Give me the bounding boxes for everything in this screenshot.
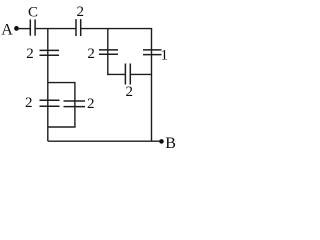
svg-text:C: C xyxy=(28,5,38,21)
capacitor C6 value 2 xyxy=(125,64,130,85)
wire bottom to node B xyxy=(48,140,162,142)
wire parallel loop bottom xyxy=(48,126,76,128)
svg-text:2: 2 xyxy=(87,46,95,62)
wire middle horizontal to C6 xyxy=(107,73,125,75)
svg-text:1: 1 xyxy=(161,48,169,64)
wire A to C1 xyxy=(17,28,31,30)
capacitor C7 value 2 xyxy=(40,100,60,106)
svg-text:2: 2 xyxy=(77,4,85,20)
svg-text:2: 2 xyxy=(25,95,33,111)
capacitor C5 value 1 xyxy=(143,50,162,55)
wire left vertical branch xyxy=(47,29,49,142)
capacitor C1 value C xyxy=(30,19,35,35)
capacitor C3 value 2 xyxy=(40,50,60,55)
node B terminal dot xyxy=(159,139,164,144)
wire C1 to C2 through node junction xyxy=(35,28,76,30)
wire right vertical branch xyxy=(151,29,153,142)
capacitor C4 value 2 xyxy=(99,50,118,54)
node A terminal dot xyxy=(14,26,19,31)
capacitor C2 value 2 xyxy=(76,19,81,36)
svg-text:B: B xyxy=(165,135,176,149)
svg-text:A: A xyxy=(1,22,13,39)
wire middle vertical branch xyxy=(107,29,109,76)
wire parallel loop top xyxy=(48,82,75,84)
capacitor C8 value 2 xyxy=(64,101,86,107)
svg-text:2: 2 xyxy=(26,46,34,62)
wire parallel loop right side xyxy=(74,82,76,127)
svg-text:2: 2 xyxy=(87,96,95,112)
wire C2 to top-right corner xyxy=(81,28,153,30)
svg-text:2: 2 xyxy=(126,84,134,100)
wire C6 to right branch xyxy=(130,73,151,75)
